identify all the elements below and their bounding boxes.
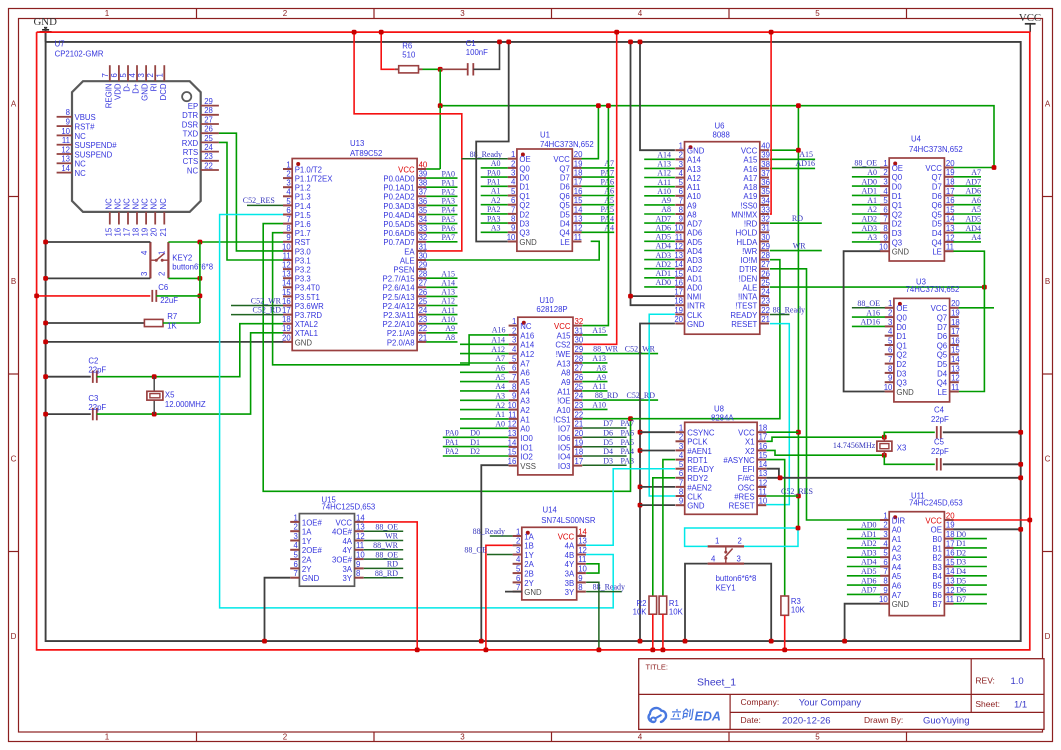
svg-text:CP2102-GMR: CP2102-GMR bbox=[55, 50, 104, 59]
wire U11 OE to GND rail bbox=[953, 527, 1023, 532]
svg-text:10K: 10K bbox=[633, 608, 648, 617]
svg-text:P3.5T1: P3.5T1 bbox=[295, 293, 320, 302]
svg-text:D3: D3 bbox=[892, 229, 902, 238]
svg-text:GND: GND bbox=[687, 320, 705, 329]
svg-text:D0: D0 bbox=[470, 429, 480, 438]
svg-text:D4: D4 bbox=[603, 447, 613, 456]
wire U13 GND to rail bbox=[43, 340, 283, 345]
wire U3 input stubs bbox=[852, 299, 885, 327]
svg-text:13: 13 bbox=[356, 523, 365, 532]
svg-text:IO!M: IO!M bbox=[740, 256, 757, 265]
svg-text:6: 6 bbox=[888, 346, 892, 355]
wire U13 P1.7 to U10 A16 bbox=[273, 233, 509, 365]
svg-text:15: 15 bbox=[946, 205, 955, 214]
svg-text:IO4: IO4 bbox=[558, 453, 571, 462]
svg-text:A15: A15 bbox=[441, 269, 455, 278]
wire X2 net to crystal bbox=[766, 450, 886, 457]
svg-text:INTR: INTR bbox=[687, 302, 706, 311]
svg-text:2A: 2A bbox=[302, 556, 312, 565]
wire U4 output stubs bbox=[953, 168, 981, 242]
wire U10 data IO7-IO3 stubs bbox=[582, 419, 634, 465]
svg-text:10: 10 bbox=[884, 383, 893, 392]
svg-text:Q1: Q1 bbox=[892, 201, 902, 210]
svg-text:A9: A9 bbox=[445, 324, 455, 333]
svg-text:RDT1: RDT1 bbox=[687, 456, 707, 465]
svg-text:14: 14 bbox=[951, 355, 960, 364]
svg-text:15: 15 bbox=[759, 451, 768, 460]
svg-text:PA1: PA1 bbox=[487, 178, 501, 187]
svg-text:NC: NC bbox=[187, 166, 199, 175]
svg-text:88_Ready: 88_Ready bbox=[473, 527, 505, 536]
svg-text:VCC: VCC bbox=[554, 322, 571, 331]
svg-text:D2: D2 bbox=[519, 210, 529, 219]
wire VCC to R6 bbox=[379, 30, 395, 70]
svg-text:27: 27 bbox=[204, 115, 213, 124]
svg-text:X1: X1 bbox=[745, 438, 755, 447]
svg-text:A15: A15 bbox=[799, 150, 813, 159]
wire 88_Ready stub at U6 READY bbox=[770, 305, 805, 314]
svg-text:D7: D7 bbox=[932, 183, 942, 192]
svg-text:P0.6AD6: P0.6AD6 bbox=[383, 229, 414, 238]
svg-text:2: 2 bbox=[738, 537, 742, 546]
svg-text:P0.1AD1: P0.1AD1 bbox=[383, 184, 414, 193]
svg-text:Q2: Q2 bbox=[896, 351, 906, 360]
svg-text:A0: A0 bbox=[867, 168, 877, 177]
wire U14 GND stub bbox=[505, 591, 522, 593]
svg-text:VCC: VCC bbox=[553, 155, 570, 164]
svg-text:PA7: PA7 bbox=[621, 419, 635, 428]
svg-text:GND: GND bbox=[295, 338, 313, 347]
svg-text:VDD: VDD bbox=[113, 83, 122, 100]
svg-text:88_RD: 88_RD bbox=[595, 391, 618, 400]
svg-text:15: 15 bbox=[282, 288, 291, 297]
svg-text:AD6: AD6 bbox=[687, 229, 702, 238]
svg-text:21: 21 bbox=[159, 228, 168, 237]
wire C1 to GND rail bbox=[473, 40, 502, 70]
svg-text:LE: LE bbox=[938, 388, 948, 397]
svg-text:D3: D3 bbox=[603, 457, 613, 466]
svg-text:IO5: IO5 bbox=[558, 443, 571, 452]
svg-text:25: 25 bbox=[575, 382, 584, 391]
svg-text:P3.3: P3.3 bbox=[295, 275, 311, 284]
svg-text:7: 7 bbox=[679, 196, 683, 205]
svg-text:4: 4 bbox=[883, 187, 888, 196]
svg-text:19: 19 bbox=[575, 438, 584, 447]
svg-text:A4: A4 bbox=[892, 563, 902, 572]
wire RST net KEY2 to U13 bbox=[168, 240, 283, 323]
svg-text:A12: A12 bbox=[657, 169, 671, 178]
svg-text:2: 2 bbox=[679, 151, 683, 160]
svg-text:5: 5 bbox=[815, 733, 820, 742]
svg-text:13: 13 bbox=[674, 251, 683, 260]
svg-text:A13: A13 bbox=[592, 354, 606, 363]
svg-text:SN74LS00NSR: SN74LS00NSR bbox=[541, 516, 596, 525]
wire U11 GND to rail bbox=[842, 604, 880, 644]
svg-text:16: 16 bbox=[674, 278, 683, 287]
svg-text:B0: B0 bbox=[932, 535, 942, 544]
svg-text:AD1: AD1 bbox=[861, 187, 877, 196]
svg-text:AD5: AD5 bbox=[861, 567, 877, 576]
svg-text:TITLE:: TITLE: bbox=[646, 663, 669, 672]
svg-text:AT89C52: AT89C52 bbox=[350, 149, 382, 158]
svg-text:A0: A0 bbox=[491, 159, 501, 168]
svg-text:AD16: AD16 bbox=[860, 318, 880, 327]
svg-text:B2: B2 bbox=[932, 554, 942, 563]
svg-text:A13: A13 bbox=[687, 165, 701, 174]
svg-text:37: 37 bbox=[761, 169, 770, 178]
svg-text:16: 16 bbox=[951, 336, 960, 345]
svg-text:!RD: !RD bbox=[744, 220, 758, 229]
svg-text:1: 1 bbox=[511, 150, 515, 159]
svg-text:NC: NC bbox=[150, 198, 159, 210]
svg-text:GND: GND bbox=[892, 600, 910, 609]
svg-text:A15: A15 bbox=[743, 156, 758, 165]
svg-text:5: 5 bbox=[294, 551, 299, 560]
svg-text:14: 14 bbox=[674, 260, 683, 269]
svg-text:7: 7 bbox=[511, 205, 515, 214]
svg-text:A18: A18 bbox=[743, 183, 757, 192]
svg-text:DTR: DTR bbox=[182, 111, 198, 120]
svg-text:VCC: VCC bbox=[925, 516, 942, 525]
svg-text:A10: A10 bbox=[687, 192, 702, 201]
svg-text:XTAL2: XTAL2 bbox=[295, 320, 318, 329]
svg-text:NC: NC bbox=[75, 169, 87, 178]
svg-text:88_OE: 88_OE bbox=[375, 550, 398, 559]
svg-text:D6: D6 bbox=[560, 183, 570, 192]
wire U6 address stubs A14-A8 bbox=[644, 151, 675, 215]
svg-text:1: 1 bbox=[888, 299, 892, 308]
svg-text:1: 1 bbox=[294, 513, 298, 522]
svg-text:10: 10 bbox=[674, 224, 683, 233]
wire U14 3B to VCC rail bbox=[586, 582, 601, 652]
svg-text:10: 10 bbox=[879, 243, 888, 252]
svg-text:A16: A16 bbox=[866, 308, 880, 317]
svg-text:35: 35 bbox=[419, 206, 428, 215]
svg-text:CLK: CLK bbox=[687, 311, 703, 320]
wire U4 LE to ALE net bbox=[953, 251, 984, 391]
wire U13 ALE to U1 LE bbox=[426, 241, 599, 260]
svg-text:Q6: Q6 bbox=[931, 201, 941, 210]
svg-text:P3.0: P3.0 bbox=[295, 247, 312, 256]
svg-text:18: 18 bbox=[951, 318, 960, 327]
svg-text:3Y: 3Y bbox=[565, 588, 575, 597]
svg-text:22pF: 22pF bbox=[88, 366, 106, 375]
svg-text:D5: D5 bbox=[603, 438, 613, 447]
svg-text:D5: D5 bbox=[932, 220, 943, 229]
svg-text:A: A bbox=[11, 100, 17, 109]
svg-text:3: 3 bbox=[140, 272, 149, 276]
svg-text:A14: A14 bbox=[657, 151, 671, 160]
svg-text:R6: R6 bbox=[402, 42, 412, 51]
svg-text:D0: D0 bbox=[892, 183, 903, 192]
svg-text:READY: READY bbox=[687, 465, 715, 474]
wire U14 4Y to 3A loop bbox=[586, 564, 599, 573]
svg-text:OE: OE bbox=[896, 304, 907, 313]
svg-text:18: 18 bbox=[946, 530, 955, 539]
svg-text:18: 18 bbox=[946, 178, 955, 187]
svg-text:17: 17 bbox=[759, 433, 768, 442]
svg-text:D0: D0 bbox=[956, 530, 966, 539]
svg-text:23: 23 bbox=[575, 401, 584, 410]
svg-text:P1.0/T2: P1.0/T2 bbox=[295, 165, 322, 174]
svg-text:A5: A5 bbox=[520, 378, 530, 387]
svg-text:3: 3 bbox=[737, 555, 741, 564]
svg-text:3OE#: 3OE# bbox=[332, 556, 353, 565]
svg-text:7: 7 bbox=[512, 373, 516, 382]
svg-text:15: 15 bbox=[508, 448, 517, 457]
resistor R1 10K bbox=[659, 596, 683, 652]
wire U6 A16 AD16 stub bbox=[770, 159, 815, 168]
svg-text:8: 8 bbox=[679, 487, 683, 496]
ground symbol GND top-left bbox=[34, 16, 58, 42]
svg-text:DSR: DSR bbox=[182, 120, 199, 129]
svg-text:PA5: PA5 bbox=[621, 438, 635, 447]
svg-text:18: 18 bbox=[574, 169, 583, 178]
wire C52_RES net at U8 RES bbox=[766, 487, 813, 496]
wire GND rail drop to U6 GND1 bbox=[638, 40, 675, 151]
svg-text:A13: A13 bbox=[557, 359, 571, 368]
svg-text:IO7: IO7 bbox=[558, 425, 571, 434]
svg-text:AD7: AD7 bbox=[965, 177, 981, 186]
svg-text:4: 4 bbox=[679, 169, 684, 178]
svg-text:14: 14 bbox=[574, 205, 583, 214]
svg-text:4: 4 bbox=[511, 178, 516, 187]
wire U14 1B to VCC red rail bbox=[484, 545, 513, 652]
svg-text:20: 20 bbox=[674, 315, 683, 324]
wire U6 A15 stub bbox=[770, 150, 815, 159]
svg-text:39: 39 bbox=[761, 151, 770, 160]
svg-text:88_OE: 88_OE bbox=[464, 545, 487, 554]
svg-text:PA0: PA0 bbox=[487, 168, 501, 177]
svg-text:29: 29 bbox=[761, 242, 770, 251]
svg-text:88_Ready: 88_Ready bbox=[593, 582, 625, 591]
svg-text:D1: D1 bbox=[956, 539, 966, 548]
svg-text:20: 20 bbox=[150, 227, 159, 236]
svg-text:20: 20 bbox=[282, 333, 291, 342]
svg-text:A2: A2 bbox=[491, 196, 501, 205]
svg-text:A10: A10 bbox=[592, 401, 606, 410]
svg-text:RTS: RTS bbox=[183, 148, 198, 157]
wire U8 RDT1 to R1 bbox=[663, 460, 675, 596]
svg-text:P1.3: P1.3 bbox=[295, 193, 311, 202]
svg-text:12: 12 bbox=[946, 233, 955, 242]
wire U1 output net stubs bbox=[582, 159, 615, 232]
svg-text:7: 7 bbox=[294, 569, 298, 578]
svg-text:P3.4T0: P3.4T0 bbox=[295, 284, 321, 293]
svg-text:13: 13 bbox=[282, 270, 291, 279]
svg-text:13: 13 bbox=[508, 429, 517, 438]
svg-text:12: 12 bbox=[578, 546, 587, 555]
svg-text:C52_RD: C52_RD bbox=[253, 305, 282, 314]
wire GND rail to KEY2 pins 4-3 bbox=[43, 240, 150, 281]
wire XTAL2 net bbox=[97, 324, 283, 379]
svg-text:32: 32 bbox=[575, 317, 584, 326]
svg-text:18: 18 bbox=[282, 315, 291, 324]
svg-text:Date:: Date: bbox=[741, 715, 761, 725]
svg-text:D2: D2 bbox=[956, 548, 966, 557]
svg-text:KEY1: KEY1 bbox=[716, 584, 736, 593]
svg-text:A17: A17 bbox=[743, 174, 757, 183]
svg-text:A5: A5 bbox=[892, 572, 902, 581]
svg-text:9: 9 bbox=[679, 215, 683, 224]
svg-text:AD6: AD6 bbox=[965, 187, 981, 196]
wire U15 GND to rail bbox=[262, 578, 290, 644]
svg-text:24: 24 bbox=[204, 143, 213, 152]
svg-text:LE: LE bbox=[560, 238, 570, 247]
capacitor C2 22pF bbox=[43, 357, 106, 383]
svg-text:P0.5AD5: P0.5AD5 bbox=[383, 220, 415, 229]
wire U8 RDY2 to R2 bbox=[653, 478, 675, 596]
svg-text:1: 1 bbox=[158, 251, 167, 255]
wire U8 ASYNC to R3 bbox=[766, 460, 784, 596]
svg-text:32: 32 bbox=[761, 215, 770, 224]
svg-text:A11: A11 bbox=[557, 387, 570, 396]
wire VCC red to U6 MNMX bbox=[769, 30, 774, 214]
svg-text:button6*6*8: button6*6*8 bbox=[172, 263, 213, 272]
svg-text:18: 18 bbox=[674, 297, 683, 306]
svg-text:1: 1 bbox=[883, 511, 887, 520]
svg-text:AD7: AD7 bbox=[655, 214, 671, 223]
svg-text:3: 3 bbox=[460, 9, 465, 18]
svg-text:2: 2 bbox=[283, 9, 288, 18]
wire GND rail to U1 GND bbox=[476, 40, 511, 242]
svg-text:7: 7 bbox=[888, 355, 892, 364]
svg-text:9: 9 bbox=[679, 497, 683, 506]
svg-text:Your Company: Your Company bbox=[799, 697, 862, 708]
svg-text:C52_RES: C52_RES bbox=[243, 196, 275, 205]
svg-text:U14: U14 bbox=[543, 506, 558, 515]
svg-text:U10: U10 bbox=[539, 296, 554, 305]
svg-text:1/1: 1/1 bbox=[1014, 700, 1027, 711]
wire U10 A15 stub bbox=[582, 326, 607, 335]
IC U15 74HC125D,653 bbox=[290, 495, 375, 586]
svg-text:74HC373N,652: 74HC373N,652 bbox=[540, 140, 594, 149]
svg-text:22pF: 22pF bbox=[931, 415, 949, 424]
svg-text:2: 2 bbox=[883, 168, 887, 177]
svg-text:D: D bbox=[1045, 632, 1051, 641]
svg-text:A9: A9 bbox=[687, 201, 697, 210]
svg-text:1B: 1B bbox=[524, 542, 534, 551]
svg-text:D4: D4 bbox=[937, 369, 948, 378]
svg-text:AD6: AD6 bbox=[655, 223, 671, 232]
svg-text:6: 6 bbox=[511, 196, 515, 205]
wire U10 VSS to GND rail bbox=[479, 465, 509, 643]
svg-text:A14: A14 bbox=[520, 341, 535, 350]
svg-text:R7: R7 bbox=[167, 312, 177, 321]
svg-text:3: 3 bbox=[516, 546, 520, 555]
svg-text:P2.0/A8: P2.0/A8 bbox=[387, 338, 415, 347]
svg-text:3B: 3B bbox=[565, 579, 575, 588]
svg-text:P3.7RD: P3.7RD bbox=[295, 311, 323, 320]
svg-text:21: 21 bbox=[419, 333, 428, 342]
svg-text:11: 11 bbox=[508, 410, 516, 419]
svg-text:Drawn By:: Drawn By: bbox=[864, 715, 903, 725]
svg-text:9: 9 bbox=[66, 118, 70, 127]
svg-text:34: 34 bbox=[419, 215, 428, 224]
svg-text:C52_RES: C52_RES bbox=[781, 487, 813, 496]
svg-text:PA5: PA5 bbox=[601, 205, 615, 214]
svg-text:12: 12 bbox=[574, 224, 583, 233]
wire U15 output stubs bbox=[364, 522, 404, 578]
svg-text:4: 4 bbox=[679, 451, 684, 460]
svg-text:628128P: 628128P bbox=[536, 305, 567, 314]
svg-text:88_OE: 88_OE bbox=[854, 159, 877, 168]
svg-text:Q6: Q6 bbox=[559, 192, 569, 201]
svg-text:NC: NC bbox=[123, 198, 132, 210]
svg-text:4: 4 bbox=[140, 250, 149, 255]
svg-text:!TEST: !TEST bbox=[735, 302, 757, 311]
svg-text:6: 6 bbox=[679, 187, 683, 196]
svg-text:12: 12 bbox=[946, 586, 955, 595]
svg-text:D2: D2 bbox=[892, 220, 902, 229]
svg-text:35: 35 bbox=[761, 187, 770, 196]
svg-text:NC: NC bbox=[141, 198, 150, 210]
svg-text:24: 24 bbox=[575, 392, 584, 401]
svg-text:3Y: 3Y bbox=[342, 574, 352, 583]
svg-text:D2: D2 bbox=[896, 360, 906, 369]
svg-text:28: 28 bbox=[204, 106, 213, 115]
svg-text:A1: A1 bbox=[867, 196, 877, 205]
svg-text:D4: D4 bbox=[956, 567, 966, 576]
svg-text:25: 25 bbox=[761, 278, 770, 287]
svg-text:Q5: Q5 bbox=[931, 210, 942, 219]
svg-text:A6: A6 bbox=[495, 364, 505, 373]
svg-text:B: B bbox=[1045, 277, 1050, 286]
svg-text:AD0: AD0 bbox=[861, 521, 877, 530]
svg-text:4: 4 bbox=[638, 733, 643, 742]
svg-text:8: 8 bbox=[679, 205, 683, 214]
svg-text:NMI: NMI bbox=[687, 293, 701, 302]
svg-text:ALE: ALE bbox=[743, 283, 758, 292]
capacitor C6 22uF bbox=[34, 283, 200, 305]
wire U4 VCC to green rail drop bbox=[953, 165, 996, 170]
svg-text:33: 33 bbox=[761, 205, 770, 214]
wire U6 NMI INTR to GND bbox=[628, 40, 675, 306]
svg-text:A15: A15 bbox=[592, 326, 606, 335]
svg-text:A8: A8 bbox=[687, 210, 697, 219]
svg-text:PA0: PA0 bbox=[442, 169, 456, 178]
svg-text:NC: NC bbox=[75, 160, 87, 169]
svg-text:A1: A1 bbox=[892, 535, 902, 544]
svg-text:IO1: IO1 bbox=[520, 443, 533, 452]
wire VCC green rail bbox=[426, 69, 994, 169]
svg-text:4A: 4A bbox=[342, 537, 352, 546]
svg-text:12: 12 bbox=[61, 145, 70, 154]
IC U14 SN74LS00NSR bbox=[513, 506, 596, 600]
svg-text:Sheet:: Sheet: bbox=[975, 699, 1000, 709]
svg-text:PA4: PA4 bbox=[601, 214, 615, 223]
svg-text:28: 28 bbox=[575, 354, 584, 363]
svg-text:P3.1: P3.1 bbox=[295, 256, 311, 265]
svg-text:GND: GND bbox=[519, 238, 537, 247]
svg-text:17: 17 bbox=[574, 178, 583, 187]
svg-text:15: 15 bbox=[104, 227, 113, 236]
svg-text:!WE: !WE bbox=[556, 350, 571, 359]
svg-text:P0.4AD4: P0.4AD4 bbox=[383, 211, 415, 220]
svg-text:11: 11 bbox=[759, 487, 767, 496]
svg-text:2B: 2B bbox=[524, 570, 534, 579]
svg-text:100nF: 100nF bbox=[466, 48, 488, 57]
svg-text:29: 29 bbox=[575, 345, 584, 354]
push button KEY2 bbox=[140, 242, 213, 278]
svg-text:D0: D0 bbox=[896, 323, 907, 332]
svg-text:A3: A3 bbox=[892, 554, 902, 563]
svg-text:HLDA: HLDA bbox=[736, 238, 758, 247]
svg-text:IO3: IO3 bbox=[558, 462, 571, 471]
svg-text:!SS0: !SS0 bbox=[740, 201, 758, 210]
IC U3 74HC373N,652 bbox=[884, 278, 961, 402]
svg-text:10: 10 bbox=[356, 551, 365, 560]
